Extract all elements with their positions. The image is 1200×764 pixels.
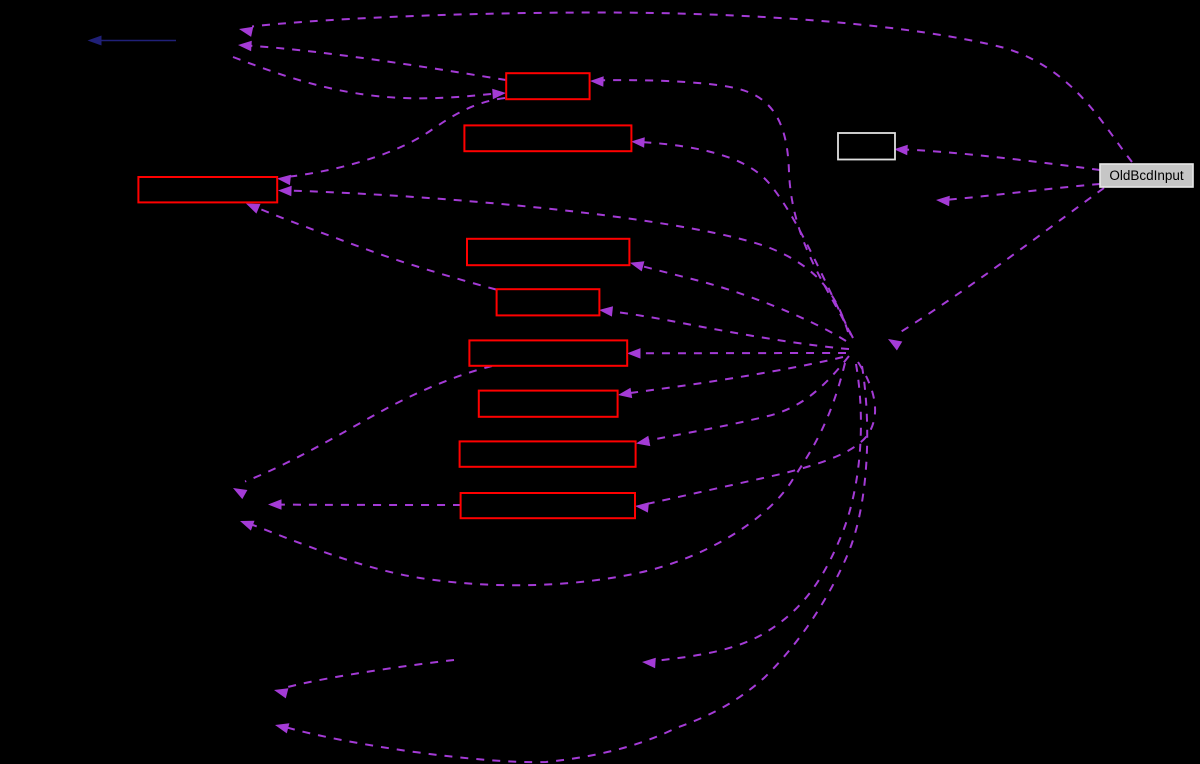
blue arrow (top-left node to far-left node): [88, 36, 177, 46]
edge hub to box7: [618, 357, 843, 398]
node box5: [497, 289, 600, 315]
edge box9 to lower-left node: [268, 499, 461, 510]
edge hub to box8: [636, 356, 849, 446]
edge bottom node to bottom-left node: [274, 660, 454, 698]
edge hub to box4: [630, 261, 846, 341]
edge box1 to top-left node: [238, 41, 506, 80]
edge top-left node to box1: [233, 57, 506, 99]
edge OldBcdInput to white box: [894, 145, 1100, 170]
edge hub to box6: [627, 348, 846, 359]
edge hub to box9: [635, 362, 875, 513]
edge OldBcdInput to top-left node (top sweep): [239, 13, 1132, 163]
node box1: [506, 73, 589, 99]
svg-text:OldBcdInput: OldBcdInput: [1109, 168, 1184, 183]
node box4: [467, 239, 629, 265]
edge box5 to box3 bottom: [246, 204, 496, 290]
node OldBcdInput (current node, gray): [1100, 164, 1193, 187]
edge hub to lower-left node (mid sweep): [240, 363, 845, 585]
edge hub to bottom-left node (bottom sweep): [275, 366, 867, 762]
node box6: [469, 340, 627, 365]
edge box1 to box3: [277, 98, 505, 185]
node box8: [460, 441, 636, 466]
node box3: [138, 177, 277, 202]
node box7: [479, 391, 618, 417]
node box2: [464, 125, 631, 151]
node white box: [838, 133, 895, 160]
edge hub to box3: [278, 186, 848, 332]
edge hub to bottom node: [642, 364, 861, 668]
edge hub to box5: [599, 306, 849, 349]
edge hub to box1: [590, 76, 851, 335]
node box9: [461, 493, 635, 518]
edge box6 to lower-left node: [233, 366, 492, 499]
edge OldBcdInput to middle node: [936, 184, 1100, 206]
edge OldBcdInput to hub: [888, 188, 1104, 351]
edge hub to box2: [631, 137, 853, 338]
